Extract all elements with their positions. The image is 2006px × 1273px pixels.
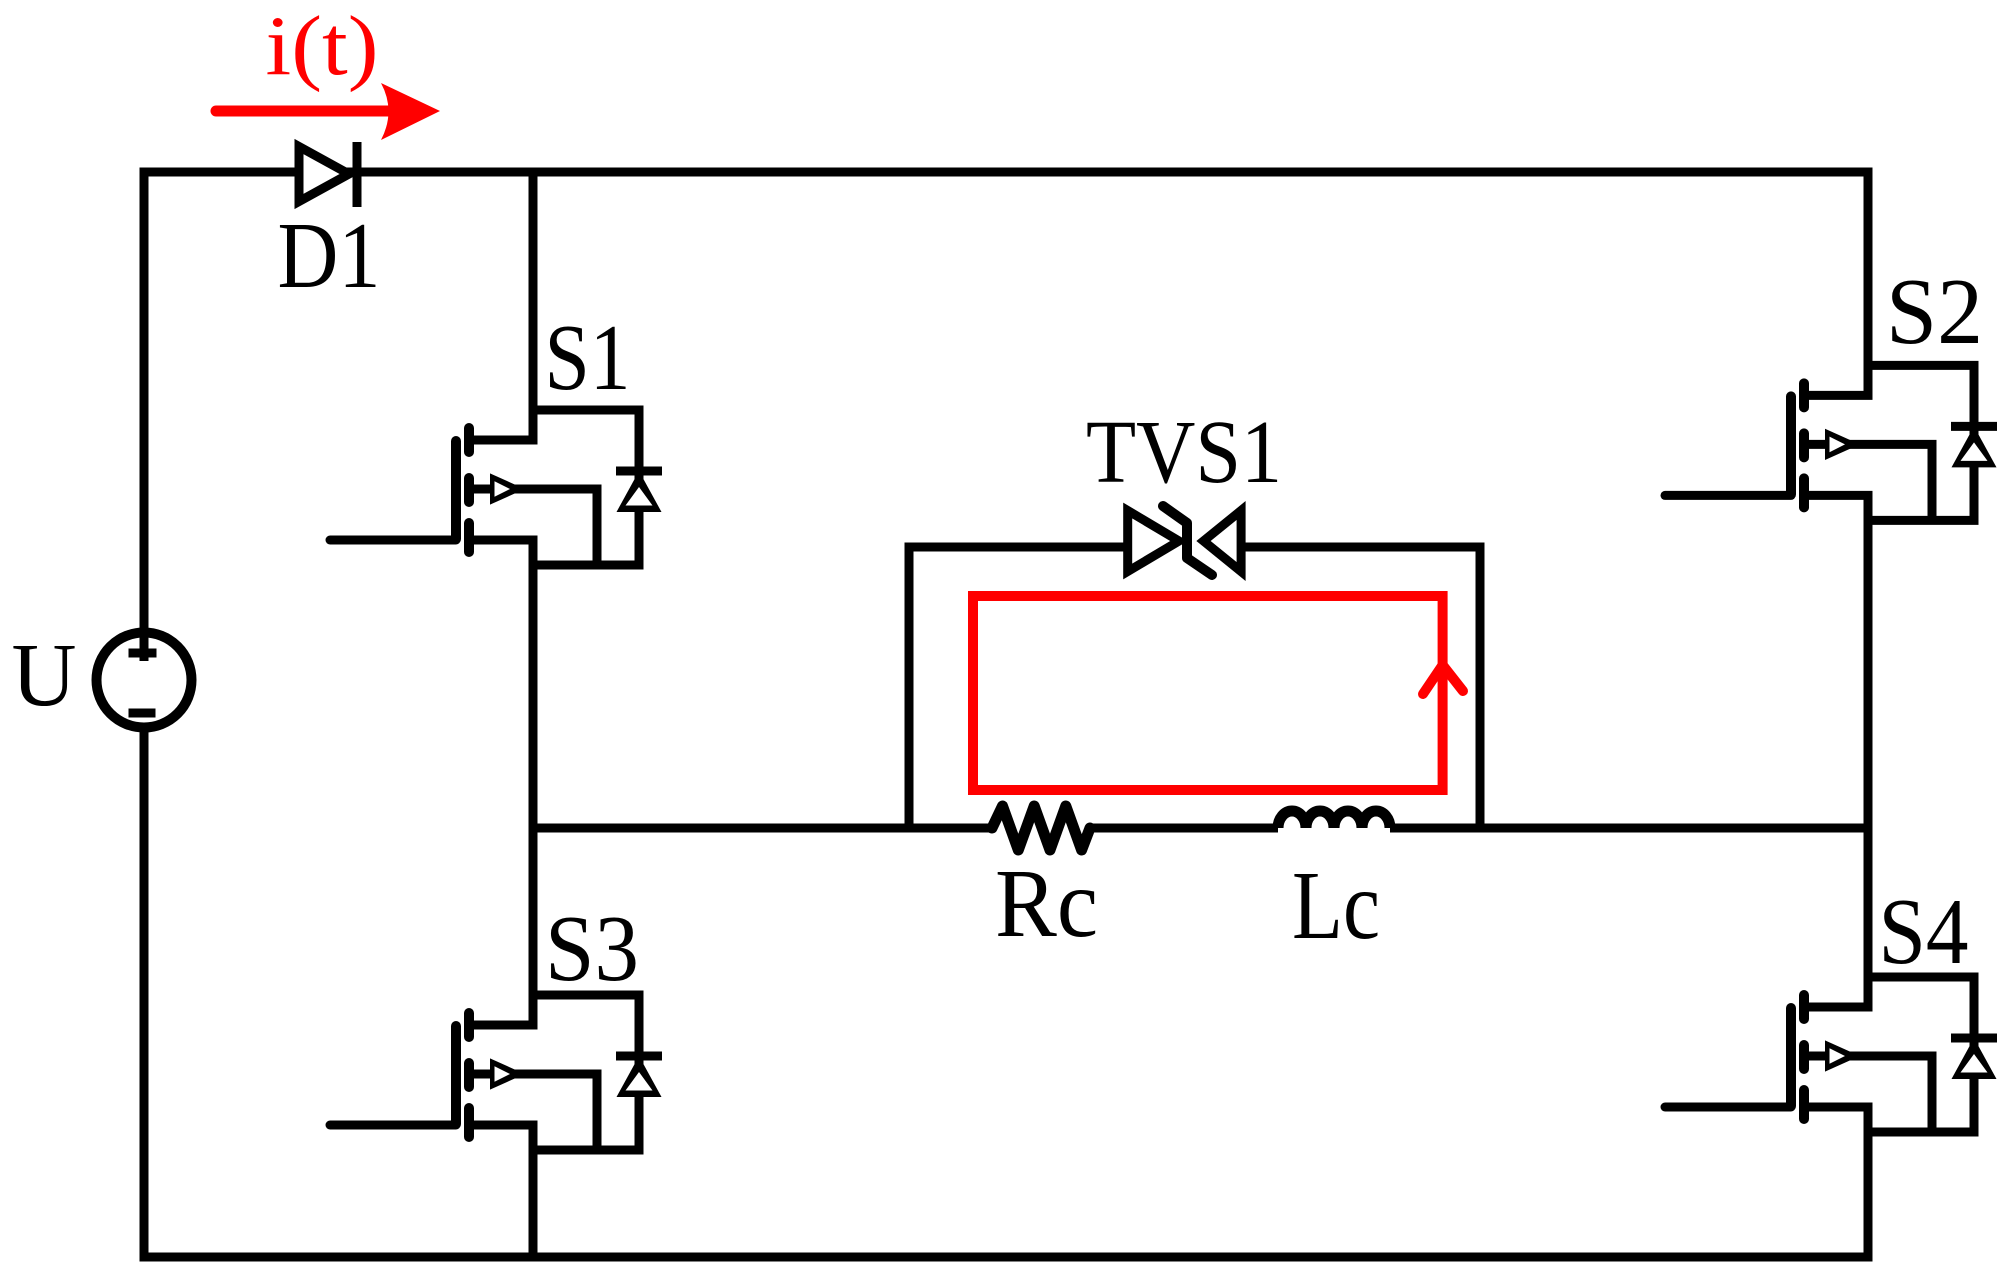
svg-text:D1: D1 <box>278 204 381 308</box>
svg-text:Rc: Rc <box>995 850 1098 957</box>
svg-text:U: U <box>12 626 77 725</box>
svg-text:i(t): i(t) <box>266 0 379 93</box>
svg-text:S1: S1 <box>545 306 631 410</box>
svg-text:S2: S2 <box>1886 260 1983 364</box>
svg-text:S3: S3 <box>545 897 639 1001</box>
svg-text:Lc: Lc <box>1292 852 1380 959</box>
svg-text:S4: S4 <box>1879 880 1969 984</box>
svg-text:TVS1: TVS1 <box>1086 403 1282 502</box>
